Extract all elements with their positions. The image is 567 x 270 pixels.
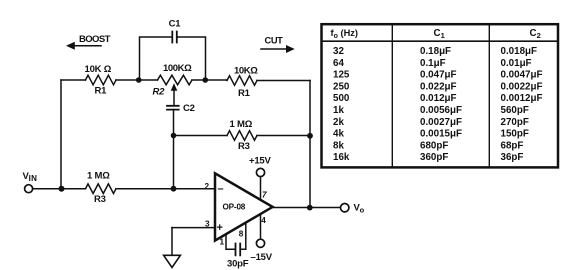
terminal Vo [341, 204, 349, 212]
svg-text:500: 500 [333, 93, 350, 104]
svg-text:1 MΩ: 1 MΩ [87, 171, 110, 182]
svg-text:+: + [217, 222, 223, 234]
potentiometer R2 100K [158, 75, 193, 85]
terminal VIN [25, 185, 33, 193]
wire to ground [171, 228, 173, 256]
svg-text:0.1μF: 0.1μF [420, 58, 446, 69]
svg-text:16k: 16k [333, 152, 350, 163]
svg-text:0.0012μF: 0.0012μF [501, 93, 543, 104]
svg-text:R3: R3 [238, 141, 250, 152]
svg-text:680pF: 680pF [420, 140, 448, 151]
svg-text:0.022μF: 0.022μF [420, 81, 457, 92]
svg-text:100KΩ: 100KΩ [163, 63, 192, 74]
svg-text:–15V: –15V [251, 252, 273, 263]
svg-text:64: 64 [333, 58, 344, 69]
svg-text:8: 8 [239, 229, 244, 238]
svg-text:125: 125 [333, 70, 350, 81]
svg-text:150pF: 150pF [501, 129, 529, 140]
svg-text:0.012μF: 0.012μF [420, 93, 457, 104]
wire right vertical [309, 81, 311, 208]
wire input rail [33, 188, 86, 190]
wire pin 1 [226, 234, 235, 249]
svg-text:3: 3 [205, 220, 210, 229]
resistor R1 10K (left) [86, 75, 117, 85]
svg-text:250: 250 [333, 81, 350, 92]
svg-text:R1: R1 [238, 88, 251, 99]
wire top-left C1 loop left side [140, 37, 172, 80]
svg-text:R3: R3 [94, 194, 106, 205]
svg-text:–: – [218, 183, 224, 195]
wire feedback left [174, 135, 228, 137]
svg-text:C1: C1 [434, 28, 445, 40]
svg-text:0.0015μF: 0.0015μF [420, 129, 462, 140]
wire feedback right [257, 135, 310, 137]
svg-text:R2: R2 [153, 87, 166, 98]
svg-text:8k: 8k [333, 140, 344, 151]
svg-text:C1: C1 [169, 19, 182, 30]
wire pin 8 [241, 223, 246, 250]
svg-text:0.047μF: 0.047μF [420, 70, 457, 81]
BOOST arrow [74, 45, 102, 47]
wire pin 7 to +15V [260, 177, 262, 200]
svg-text:0.01μF: 0.01μF [501, 58, 532, 69]
wire main top rail left [61, 79, 86, 81]
op-amp U1 OP-08 [215, 173, 273, 240]
svg-text:R1: R1 [95, 86, 108, 97]
wire top C1 loop right side [177, 37, 205, 80]
svg-text:32: 32 [333, 46, 344, 57]
svg-text:0.0027μF: 0.0027μF [420, 117, 462, 128]
CUT arrow [261, 48, 287, 50]
svg-text:fo (Hz): fo (Hz) [331, 28, 359, 40]
wire to right corner [257, 80, 310, 82]
resistor R1 10K (right) [227, 76, 257, 86]
wire pin 3 [172, 227, 215, 229]
wire left vertical [60, 80, 62, 189]
svg-text:0.18μF: 0.18μF [420, 46, 451, 57]
svg-text:4: 4 [261, 216, 266, 225]
svg-text:+15V: +15V [249, 156, 272, 167]
svg-text:10KΩ: 10KΩ [234, 66, 258, 77]
capacitor 30pF [236, 244, 241, 256]
svg-text:270pF: 270pF [501, 117, 529, 128]
wire [116, 79, 158, 81]
table header separator [322, 40, 559, 42]
svg-text:C2: C2 [530, 28, 541, 40]
table outer border [322, 24, 559, 167]
wire to pin 2 [116, 188, 215, 190]
ground [164, 255, 181, 267]
svg-text:VIN: VIN [23, 171, 38, 183]
svg-text:1k: 1k [333, 105, 344, 116]
svg-text:560pF: 560pF [501, 105, 529, 116]
wire pin 4 to -15V [260, 214, 262, 239]
svg-text:2: 2 [205, 182, 210, 191]
wire [192, 79, 227, 81]
potentiometer wiper arrow [173, 90, 175, 105]
svg-text:4k: 4k [333, 129, 344, 140]
svg-text:0.0056μF: 0.0056μF [420, 105, 462, 116]
table column divider 2 [488, 24, 490, 167]
svg-text:68pF: 68pF [501, 140, 524, 151]
svg-text:BOOST: BOOST [79, 34, 111, 45]
node junction dots [136, 77, 142, 83]
svg-text:C2: C2 [183, 103, 195, 114]
terminal +15V [256, 168, 264, 176]
wire output [273, 207, 341, 209]
table rows [333, 46, 542, 163]
svg-text:Vo: Vo [354, 203, 365, 215]
capacitor C1 [172, 32, 177, 43]
svg-text:0.0047μF: 0.0047μF [501, 70, 543, 81]
svg-text:1 MΩ: 1 MΩ [230, 119, 253, 130]
svg-text:0.018μF: 0.018μF [501, 46, 538, 57]
svg-text:30pF: 30pF [227, 259, 249, 270]
wire wiper to feedback node [173, 110, 175, 136]
svg-text:10K Ω: 10K Ω [85, 64, 112, 75]
table column divider 1 [391, 24, 393, 167]
terminal -15V [256, 239, 264, 247]
svg-text:0.0022μF: 0.0022μF [501, 81, 543, 92]
resistor R3 1M (input) [86, 184, 117, 194]
resistor R3 1M (feedback) [227, 131, 257, 141]
capacitor value table [322, 24, 559, 167]
svg-text:OP-08: OP-08 [223, 203, 246, 212]
svg-text:2k: 2k [333, 117, 344, 128]
svg-text:CUT: CUT [265, 36, 284, 46]
svg-text:1: 1 [220, 238, 225, 247]
svg-text:360pF: 360pF [420, 152, 448, 163]
wire node to inverting input rail [173, 136, 175, 189]
svg-text:36pF: 36pF [501, 152, 524, 163]
capacitor C2 [167, 106, 179, 110]
svg-text:7: 7 [262, 191, 267, 200]
